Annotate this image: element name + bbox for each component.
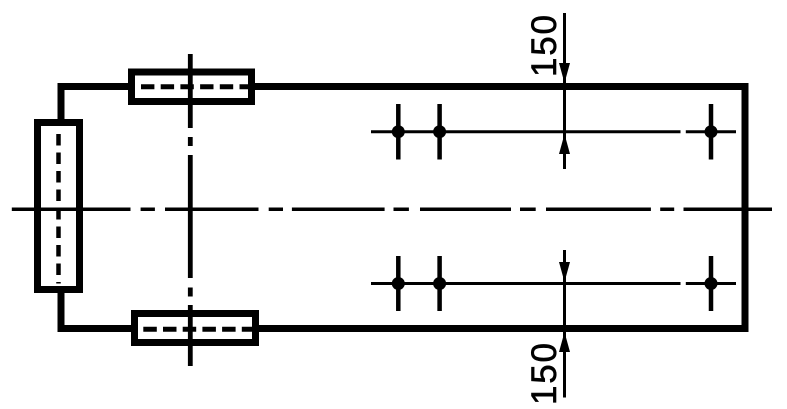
hidden dashed line in top block [141, 84, 250, 89]
bottom rail block rectangle [135, 314, 256, 343]
top dimension line [563, 13, 566, 169]
frame outline (thick chassis contour) [61, 87, 745, 329]
vertical dash-dot centerline [188, 54, 193, 366]
horizontal dash-dot centerline [12, 208, 772, 212]
bottom dimension arrow (down, at hole row) [559, 262, 570, 282]
bottom dimension line [563, 250, 566, 398]
svg-text:150: 150 [525, 13, 564, 77]
bottom dimension arrow (up, at frame bottom edge) [559, 332, 570, 352]
svg-text:150: 150 [525, 341, 564, 405]
hidden dashed line in bottom block [143, 327, 254, 332]
top rail block rectangle [132, 72, 252, 102]
bottom hole-row line [371, 282, 681, 285]
top row hole marker 1 [392, 104, 405, 160]
bottom row hole marker 3 [705, 256, 718, 311]
top hole-row line [371, 130, 681, 133]
top row hole marker 3 [705, 104, 718, 160]
hidden dashed line in left rectangle [56, 134, 61, 284]
left crossmember rectangle [38, 123, 80, 290]
top row hole marker 2 [433, 104, 446, 160]
bottom row hole marker 2 [433, 256, 446, 311]
bottom row hole marker 1 [392, 256, 405, 311]
top dimension arrow (up, at hole row) [559, 134, 570, 154]
top dimension arrow (down, at frame top edge) [559, 63, 570, 83]
